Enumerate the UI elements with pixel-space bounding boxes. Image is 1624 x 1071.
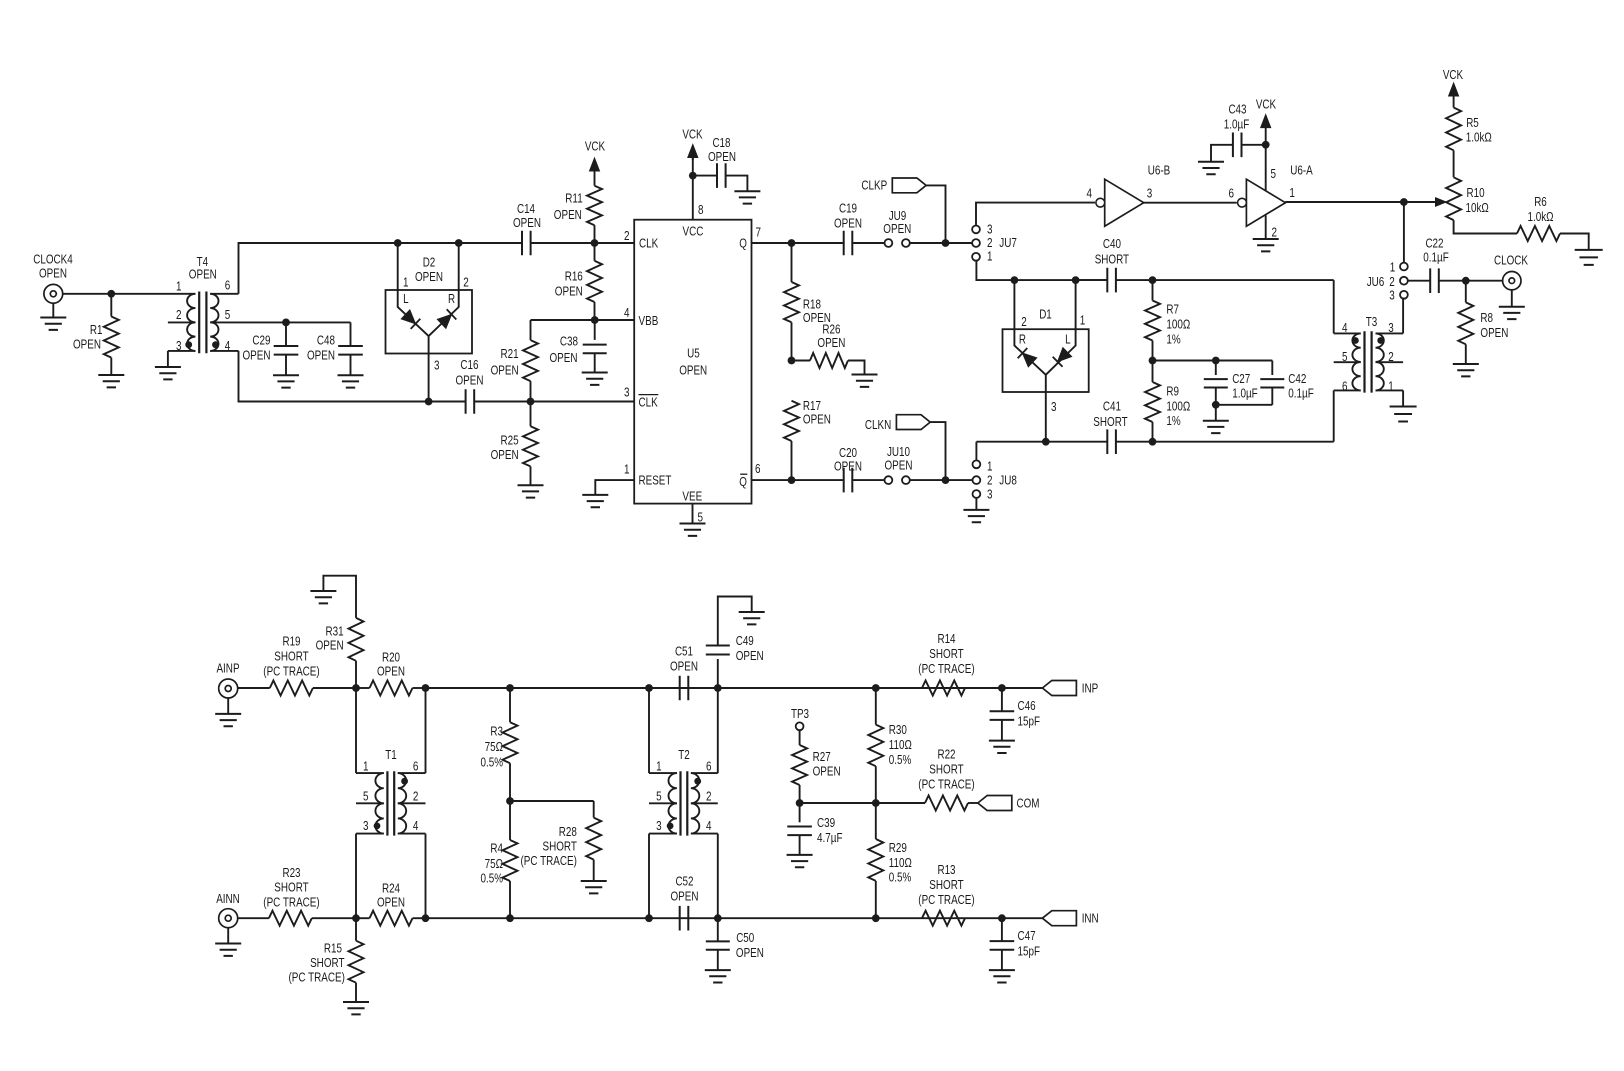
svg-text:(PC TRACE): (PC TRACE) — [263, 664, 319, 679]
svg-text:C49: C49 — [736, 633, 754, 648]
svg-text:1.0kΩ: 1.0kΩ — [1527, 209, 1553, 224]
svg-text:C39: C39 — [817, 815, 835, 830]
capacitor C18 — [693, 175, 717, 177]
ground (C38) — [582, 373, 608, 385]
svg-text:5: 5 — [225, 307, 231, 322]
svg-text:OPEN: OPEN — [817, 335, 845, 350]
svg-text:CLKN: CLKN — [865, 417, 891, 432]
ground (T4 pin 3) — [167, 351, 169, 367]
svg-text:2: 2 — [624, 228, 630, 243]
svg-text:2: 2 — [176, 307, 182, 322]
wire JU7 pin3 to U6-B input — [976, 203, 1095, 226]
wire U6-A pin 2 to ground — [1265, 215, 1267, 239]
svg-text:OPEN: OPEN — [456, 373, 484, 388]
svg-text:C40: C40 — [1103, 236, 1121, 251]
capacitor C41 — [1107, 429, 1116, 454]
connector AINN (BNC jack) — [219, 909, 238, 928]
svg-text:75Ω: 75Ω — [485, 739, 504, 754]
wire JU10 to JU8 — [909, 479, 972, 481]
svg-text:OPEN: OPEN — [39, 266, 67, 281]
node C51/C49/T2 pin6 junction — [714, 684, 722, 692]
resistor R11 — [587, 186, 602, 225]
resistor R13 — [922, 911, 965, 926]
svg-text:1%: 1% — [1166, 332, 1181, 347]
svg-text:2: 2 — [463, 275, 469, 290]
svg-text:0.5%: 0.5% — [889, 752, 912, 767]
svg-text:1: 1 — [403, 275, 409, 290]
svg-text:10kΩ: 10kΩ — [1466, 200, 1490, 215]
svg-text:0.5%: 0.5% — [481, 755, 504, 770]
capacitor C39 — [799, 803, 801, 822]
jumper JU7 pin 3 — [972, 226, 980, 234]
svg-text:C52: C52 — [675, 874, 693, 889]
jumper JU6 pin 1 — [1400, 263, 1408, 271]
svg-text:SHORT: SHORT — [274, 880, 308, 895]
svg-text:(PC TRACE): (PC TRACE) — [521, 853, 577, 868]
svg-text:R31: R31 — [326, 624, 344, 639]
svg-text:0.1µF: 0.1µF — [1288, 386, 1314, 401]
svg-text:(PC TRACE): (PC TRACE) — [918, 777, 974, 792]
svg-text:(PC TRACE): (PC TRACE) — [263, 895, 319, 910]
svg-text:SHORT: SHORT — [929, 877, 963, 892]
svg-text:AINN: AINN — [216, 891, 240, 906]
node R4 bottom junction — [506, 914, 514, 922]
wire JU8 pin1 riser to lower rail — [975, 442, 977, 461]
svg-text:INN: INN — [1082, 911, 1099, 926]
svg-text:VBB: VBB — [639, 313, 659, 328]
svg-text:OPEN: OPEN — [550, 350, 578, 365]
svg-text:Q: Q — [739, 236, 747, 251]
svg-text:R27: R27 — [813, 749, 831, 764]
svg-text:100Ω: 100Ω — [1166, 317, 1190, 332]
ground (C27) — [1203, 421, 1229, 433]
jumper JU8 pin 3 — [973, 490, 981, 498]
svg-text:0.5%: 0.5% — [889, 870, 912, 885]
svg-text:6: 6 — [1229, 186, 1235, 201]
node T2 left junction — [645, 684, 653, 692]
wire U6-A output to R10 wiper — [1285, 201, 1437, 203]
svg-text:OPEN: OPEN — [803, 412, 831, 427]
wire JU8 pin3 to ground — [975, 497, 977, 509]
svg-text:(PC TRACE): (PC TRACE) — [289, 970, 345, 985]
svg-text:Q: Q — [739, 474, 747, 489]
svg-text:R22: R22 — [937, 747, 955, 762]
svg-text:R28: R28 — [559, 824, 577, 839]
svg-text:R1: R1 — [90, 322, 103, 337]
wire mid rail to C27/C42 — [1153, 360, 1273, 362]
wire COM rail — [800, 802, 925, 804]
resistor R27 — [799, 730, 801, 745]
capacitor C14 — [522, 231, 531, 256]
svg-text:AINP: AINP — [216, 660, 239, 675]
IC U5 (clock buffer, open) — [634, 220, 751, 504]
svg-text:D1: D1 — [1039, 307, 1052, 322]
jumper JU6 pin 3 — [1400, 291, 1408, 299]
svg-text:C42: C42 — [1288, 371, 1306, 386]
wire C27 to ground — [1215, 405, 1217, 421]
resistor R7 — [1152, 280, 1154, 300]
node VBB junction — [591, 316, 599, 324]
svg-text:1.0µF: 1.0µF — [1224, 117, 1250, 132]
svg-text:6: 6 — [413, 758, 419, 773]
svg-text:3: 3 — [1051, 399, 1057, 414]
wire D1 top rail to C40 — [1076, 279, 1108, 281]
svg-text:CLOCK: CLOCK — [1494, 253, 1528, 268]
svg-text:U6-B: U6-B — [1148, 163, 1171, 178]
svg-text:L: L — [1065, 332, 1071, 347]
svg-text:(PC TRACE): (PC TRACE) — [918, 661, 974, 676]
wire C22 to CLOCK — [1439, 280, 1503, 282]
svg-text:1: 1 — [1390, 259, 1396, 274]
svg-text:R19: R19 — [282, 634, 300, 649]
svg-text:2: 2 — [413, 788, 419, 803]
flag COM — [978, 796, 1012, 811]
VCK arrow (U6-A pin 5) — [1261, 115, 1271, 128]
node CLK-bar junction — [527, 398, 535, 406]
ground (AINP) — [227, 698, 229, 714]
capacitor C38 — [594, 320, 596, 340]
svg-text:1: 1 — [1388, 379, 1394, 394]
svg-text:7: 7 — [756, 224, 762, 239]
resistor R4 — [509, 801, 511, 840]
svg-text:OPEN: OPEN — [415, 269, 443, 284]
svg-text:C46: C46 — [1018, 698, 1036, 713]
wire R22 to COM flag — [968, 802, 978, 804]
svg-text:3: 3 — [624, 385, 630, 400]
node AINP/R31/T1 junction — [352, 684, 360, 692]
ground (AINN) — [227, 928, 229, 944]
svg-text:R6: R6 — [1534, 194, 1547, 209]
resistor R29 — [875, 803, 877, 839]
ground (T3 pin1) — [1390, 407, 1417, 422]
svg-text:C50: C50 — [736, 930, 754, 945]
svg-text:4: 4 — [225, 338, 231, 353]
svg-text:OPEN: OPEN — [189, 267, 217, 282]
wire R5 to R10 — [1453, 150, 1455, 177]
svg-text:3: 3 — [656, 818, 662, 833]
ground (VEE) — [680, 524, 706, 536]
wire CLKP flag to rail — [926, 185, 945, 243]
wire AINP to R19 — [238, 687, 270, 689]
ground (U6-A pin2) — [1253, 239, 1279, 251]
ground (CLOCK4) — [52, 303, 54, 317]
svg-text:OPEN: OPEN — [679, 363, 707, 378]
svg-text:1: 1 — [624, 462, 630, 477]
resistor R26 — [810, 353, 848, 368]
svg-text:1%: 1% — [1166, 413, 1181, 428]
capacitor C40 — [1107, 268, 1116, 293]
VCK arrow (VCC) — [688, 145, 698, 158]
svg-text:0.1µF: 0.1µF — [1423, 250, 1449, 265]
jumper JU10 pads — [885, 476, 893, 484]
wire T4 pin6 riser to top rail — [239, 243, 523, 294]
inverter U6-A — [1246, 179, 1285, 226]
node Q-bar/R17 junction — [788, 476, 796, 484]
svg-text:6: 6 — [1342, 379, 1348, 394]
svg-text:OPEN: OPEN — [1480, 325, 1508, 340]
svg-text:VCK: VCK — [585, 139, 606, 154]
svg-text:R14: R14 — [937, 631, 955, 646]
node C52/C50/T2 pin4 junction — [714, 914, 722, 922]
resistor R8 — [1465, 281, 1467, 303]
svg-text:OPEN: OPEN — [377, 664, 405, 679]
svg-text:C27: C27 — [1232, 371, 1250, 386]
svg-text:C29: C29 — [252, 333, 270, 348]
node D1 pin2 junction — [1011, 276, 1019, 284]
svg-text:3: 3 — [363, 818, 369, 833]
resistor R18 — [791, 243, 793, 282]
svg-text:1: 1 — [656, 758, 662, 773]
svg-text:R11: R11 — [565, 191, 582, 206]
node CLOCK4/R1 junction — [107, 290, 115, 298]
node R27/C39 junction — [796, 799, 804, 807]
wire R10 to R6 — [1454, 220, 1517, 233]
capacitor C49 — [717, 659, 719, 688]
potentiometer R10 — [1446, 177, 1461, 220]
wire R6 to ground — [1560, 234, 1589, 250]
resistor R31 — [355, 661, 357, 688]
svg-text:JU7: JU7 — [999, 235, 1017, 250]
svg-text:SHORT: SHORT — [274, 649, 308, 664]
svg-text:OPEN: OPEN — [513, 215, 541, 230]
node C46/INP junction — [998, 684, 1006, 692]
svg-text:D2: D2 — [423, 255, 436, 270]
resistor R24 — [370, 911, 413, 926]
node C41/R9 junction — [1149, 438, 1157, 446]
svg-text:R13: R13 — [937, 862, 955, 877]
svg-text:U5: U5 — [687, 346, 700, 361]
svg-text:6: 6 — [755, 461, 761, 476]
flag INN — [1042, 911, 1076, 926]
svg-text:R9: R9 — [1166, 384, 1179, 399]
svg-text:OPEN: OPEN — [883, 221, 911, 236]
svg-text:C41: C41 — [1103, 399, 1121, 414]
svg-text:INP: INP — [1082, 680, 1099, 695]
VCK arrow (R11) — [590, 158, 600, 171]
node T2 pin3 junction — [645, 914, 653, 922]
node C47/INN junction — [998, 914, 1006, 922]
svg-text:2: 2 — [987, 235, 993, 250]
wire R23 to junction — [312, 917, 356, 919]
node R7/R9/C27 junction — [1149, 357, 1157, 365]
svg-text:L: L — [403, 291, 409, 306]
ground (C47) — [989, 970, 1015, 982]
ground (R15) — [343, 1002, 369, 1014]
connector CLOCK4 (BNC jack) — [44, 284, 63, 303]
node R30/R29/COM junction — [872, 799, 880, 807]
svg-text:2: 2 — [987, 472, 993, 487]
wire U5 VEE pin 5 — [692, 504, 694, 524]
svg-text:SHORT: SHORT — [929, 762, 963, 777]
svg-text:C14: C14 — [517, 201, 535, 216]
ground (C50) — [705, 970, 731, 982]
svg-text:OPEN: OPEN — [813, 764, 841, 779]
capacitor C27 — [1215, 361, 1217, 376]
ground (R1) — [98, 375, 124, 387]
svg-text:VCC: VCC — [683, 223, 704, 238]
resistor R30 — [875, 688, 877, 725]
node D1 pin1 junction — [1072, 276, 1080, 284]
svg-text:R25: R25 — [501, 433, 519, 448]
wire bottom rail to INN — [426, 917, 1043, 919]
svg-text:OPEN: OPEN — [73, 337, 101, 352]
wire JU6 pin2 to C22 — [1407, 280, 1430, 282]
wire T4 pin4 riser to CLK-bar rail — [239, 351, 466, 402]
svg-text:R24: R24 — [382, 881, 400, 896]
ground (C29) — [273, 375, 299, 387]
svg-text:COM: COM — [1017, 795, 1040, 810]
wire C43 to VCK node — [1242, 144, 1266, 146]
node R3 top junction — [506, 684, 514, 692]
ground (C49) — [739, 612, 765, 624]
flag INP — [1042, 681, 1076, 696]
ground (R25) — [518, 485, 544, 497]
resistor R17 — [784, 401, 799, 441]
svg-text:2: 2 — [706, 788, 712, 803]
svg-text:SHORT: SHORT — [310, 955, 344, 970]
wire CLK-bar to U5 — [531, 401, 635, 403]
svg-text:R16: R16 — [565, 269, 583, 284]
capacitor C20 — [844, 468, 853, 493]
node CLKN junction — [942, 476, 950, 484]
wire AINN to R23 — [238, 917, 269, 919]
resistor R16 — [594, 243, 596, 261]
resistor R5 — [1446, 108, 1461, 151]
svg-text:100Ω: 100Ω — [1166, 399, 1190, 414]
svg-text:R4: R4 — [490, 841, 503, 856]
jumper JU7 pin 1 — [972, 253, 980, 261]
svg-text:1: 1 — [987, 459, 993, 474]
wire C43 to ground — [1211, 145, 1233, 162]
node CLKP junction — [942, 239, 950, 247]
wire C19 to JU9 — [852, 242, 885, 244]
svg-text:3: 3 — [987, 487, 993, 502]
svg-text:1.0kΩ: 1.0kΩ — [1466, 130, 1492, 145]
svg-text:C19: C19 — [839, 201, 857, 216]
svg-text:OPEN: OPEN — [555, 284, 583, 299]
svg-text:3: 3 — [1147, 185, 1153, 200]
resistor R19 — [270, 681, 313, 696]
jumper JU8 pin 2 — [973, 476, 981, 484]
node R24/T1 pin4 junction — [422, 914, 430, 922]
svg-text:OPEN: OPEN — [243, 348, 271, 363]
resistor R25 — [530, 402, 532, 427]
ground (C18) — [734, 191, 760, 203]
capacitor C29 — [285, 322, 287, 346]
wire U5 RESET pin 1 to ground — [595, 480, 634, 495]
svg-text:SHORT: SHORT — [1095, 252, 1129, 267]
svg-text:8: 8 — [698, 202, 704, 217]
wire Q-bar lower rail to C41 — [976, 441, 1107, 443]
svg-text:SHORT: SHORT — [1093, 414, 1127, 429]
capacitor C42 — [1271, 361, 1273, 376]
svg-text:R: R — [448, 291, 455, 306]
node R3/R4/R28 junction — [506, 797, 514, 805]
wire JU7 pin1 to D1 rail — [976, 260, 1107, 280]
svg-text:110Ω: 110Ω — [889, 737, 912, 752]
svg-text:T3: T3 — [1366, 314, 1378, 329]
resistor R23 — [269, 911, 312, 926]
svg-text:OPEN: OPEN — [316, 638, 344, 653]
resistor R15 — [355, 918, 357, 941]
svg-text:4: 4 — [624, 305, 630, 320]
node D1 pin3 junction — [1042, 438, 1050, 446]
ground (JU8) — [963, 510, 989, 522]
svg-text:OPEN: OPEN — [736, 945, 764, 960]
resistor R20 — [370, 681, 413, 696]
capacitor C46 — [1001, 688, 1003, 711]
resistor R6 — [1517, 226, 1560, 241]
ground (C48) — [338, 375, 364, 387]
capacitor C50 — [717, 918, 719, 941]
wire U5 Q pin 7 rail — [752, 242, 844, 244]
capacitor C52 — [680, 906, 689, 931]
svg-text:R30: R30 — [889, 722, 907, 737]
wire U5 VCC pin 8 — [692, 157, 694, 220]
svg-text:OPEN: OPEN — [736, 648, 764, 663]
resistor R21 — [530, 320, 532, 340]
node AINN/R15/T1 junction — [352, 914, 360, 922]
wire JU9 to JU7 — [909, 242, 972, 244]
svg-text:JU8: JU8 — [999, 472, 1017, 487]
svg-text:3: 3 — [434, 358, 440, 373]
node D2 pin1 junction — [394, 239, 402, 247]
wire T4 pin5 to C29/C48 — [239, 321, 351, 323]
svg-text:4.7µF: 4.7µF — [817, 830, 843, 845]
connector CLOCK (BNC jack) — [1503, 272, 1521, 290]
jumper JU9 pads — [885, 239, 893, 247]
svg-text:CLOCK4: CLOCK4 — [33, 251, 73, 266]
svg-text:2: 2 — [1021, 314, 1027, 329]
svg-text:R: R — [1019, 332, 1026, 347]
svg-text:3: 3 — [176, 338, 182, 353]
jumper JU8 pin 1 — [973, 460, 981, 468]
node C27 bottom junction — [1212, 401, 1220, 409]
node Q/R18 junction — [788, 239, 796, 247]
node CLK junction — [591, 239, 599, 247]
resistor R14 — [922, 681, 965, 696]
wire CLKN flag to rail — [930, 422, 945, 480]
svg-text:JU6: JU6 — [1367, 274, 1385, 289]
node C22/R8 junction — [1462, 277, 1470, 285]
wire U5 Q-bar pin 6 rail — [752, 479, 844, 481]
ground (R31) — [310, 591, 336, 603]
wire R3/R4 junction to R28 — [510, 800, 594, 802]
ground (R28) — [581, 881, 607, 893]
wire VBB to R21 — [531, 319, 635, 321]
svg-text:C47: C47 — [1018, 928, 1036, 943]
svg-text:1.0µF: 1.0µF — [1232, 386, 1258, 401]
wire T3 pin1 to ground — [1402, 390, 1404, 406]
svg-text:1: 1 — [363, 758, 369, 773]
capacitor C22 — [1430, 268, 1439, 293]
svg-text:T1: T1 — [385, 747, 397, 762]
ground (R8) — [1453, 364, 1479, 376]
wire D1 pin 3 — [1045, 375, 1047, 442]
ground (C39) — [787, 855, 813, 867]
svg-text:R23: R23 — [282, 865, 300, 880]
svg-text:6: 6 — [225, 278, 231, 293]
svg-text:1: 1 — [176, 278, 182, 293]
svg-text:2: 2 — [1388, 349, 1394, 364]
svg-text:VCK: VCK — [1256, 97, 1277, 112]
node R29 bottom junction — [872, 914, 880, 922]
svg-text:C18: C18 — [712, 135, 730, 150]
wire C42 bottom to C27 bottom — [1216, 404, 1273, 406]
svg-text:TP3: TP3 — [791, 706, 809, 721]
ground (R26) — [852, 375, 878, 387]
svg-text:VCK: VCK — [1443, 67, 1464, 82]
